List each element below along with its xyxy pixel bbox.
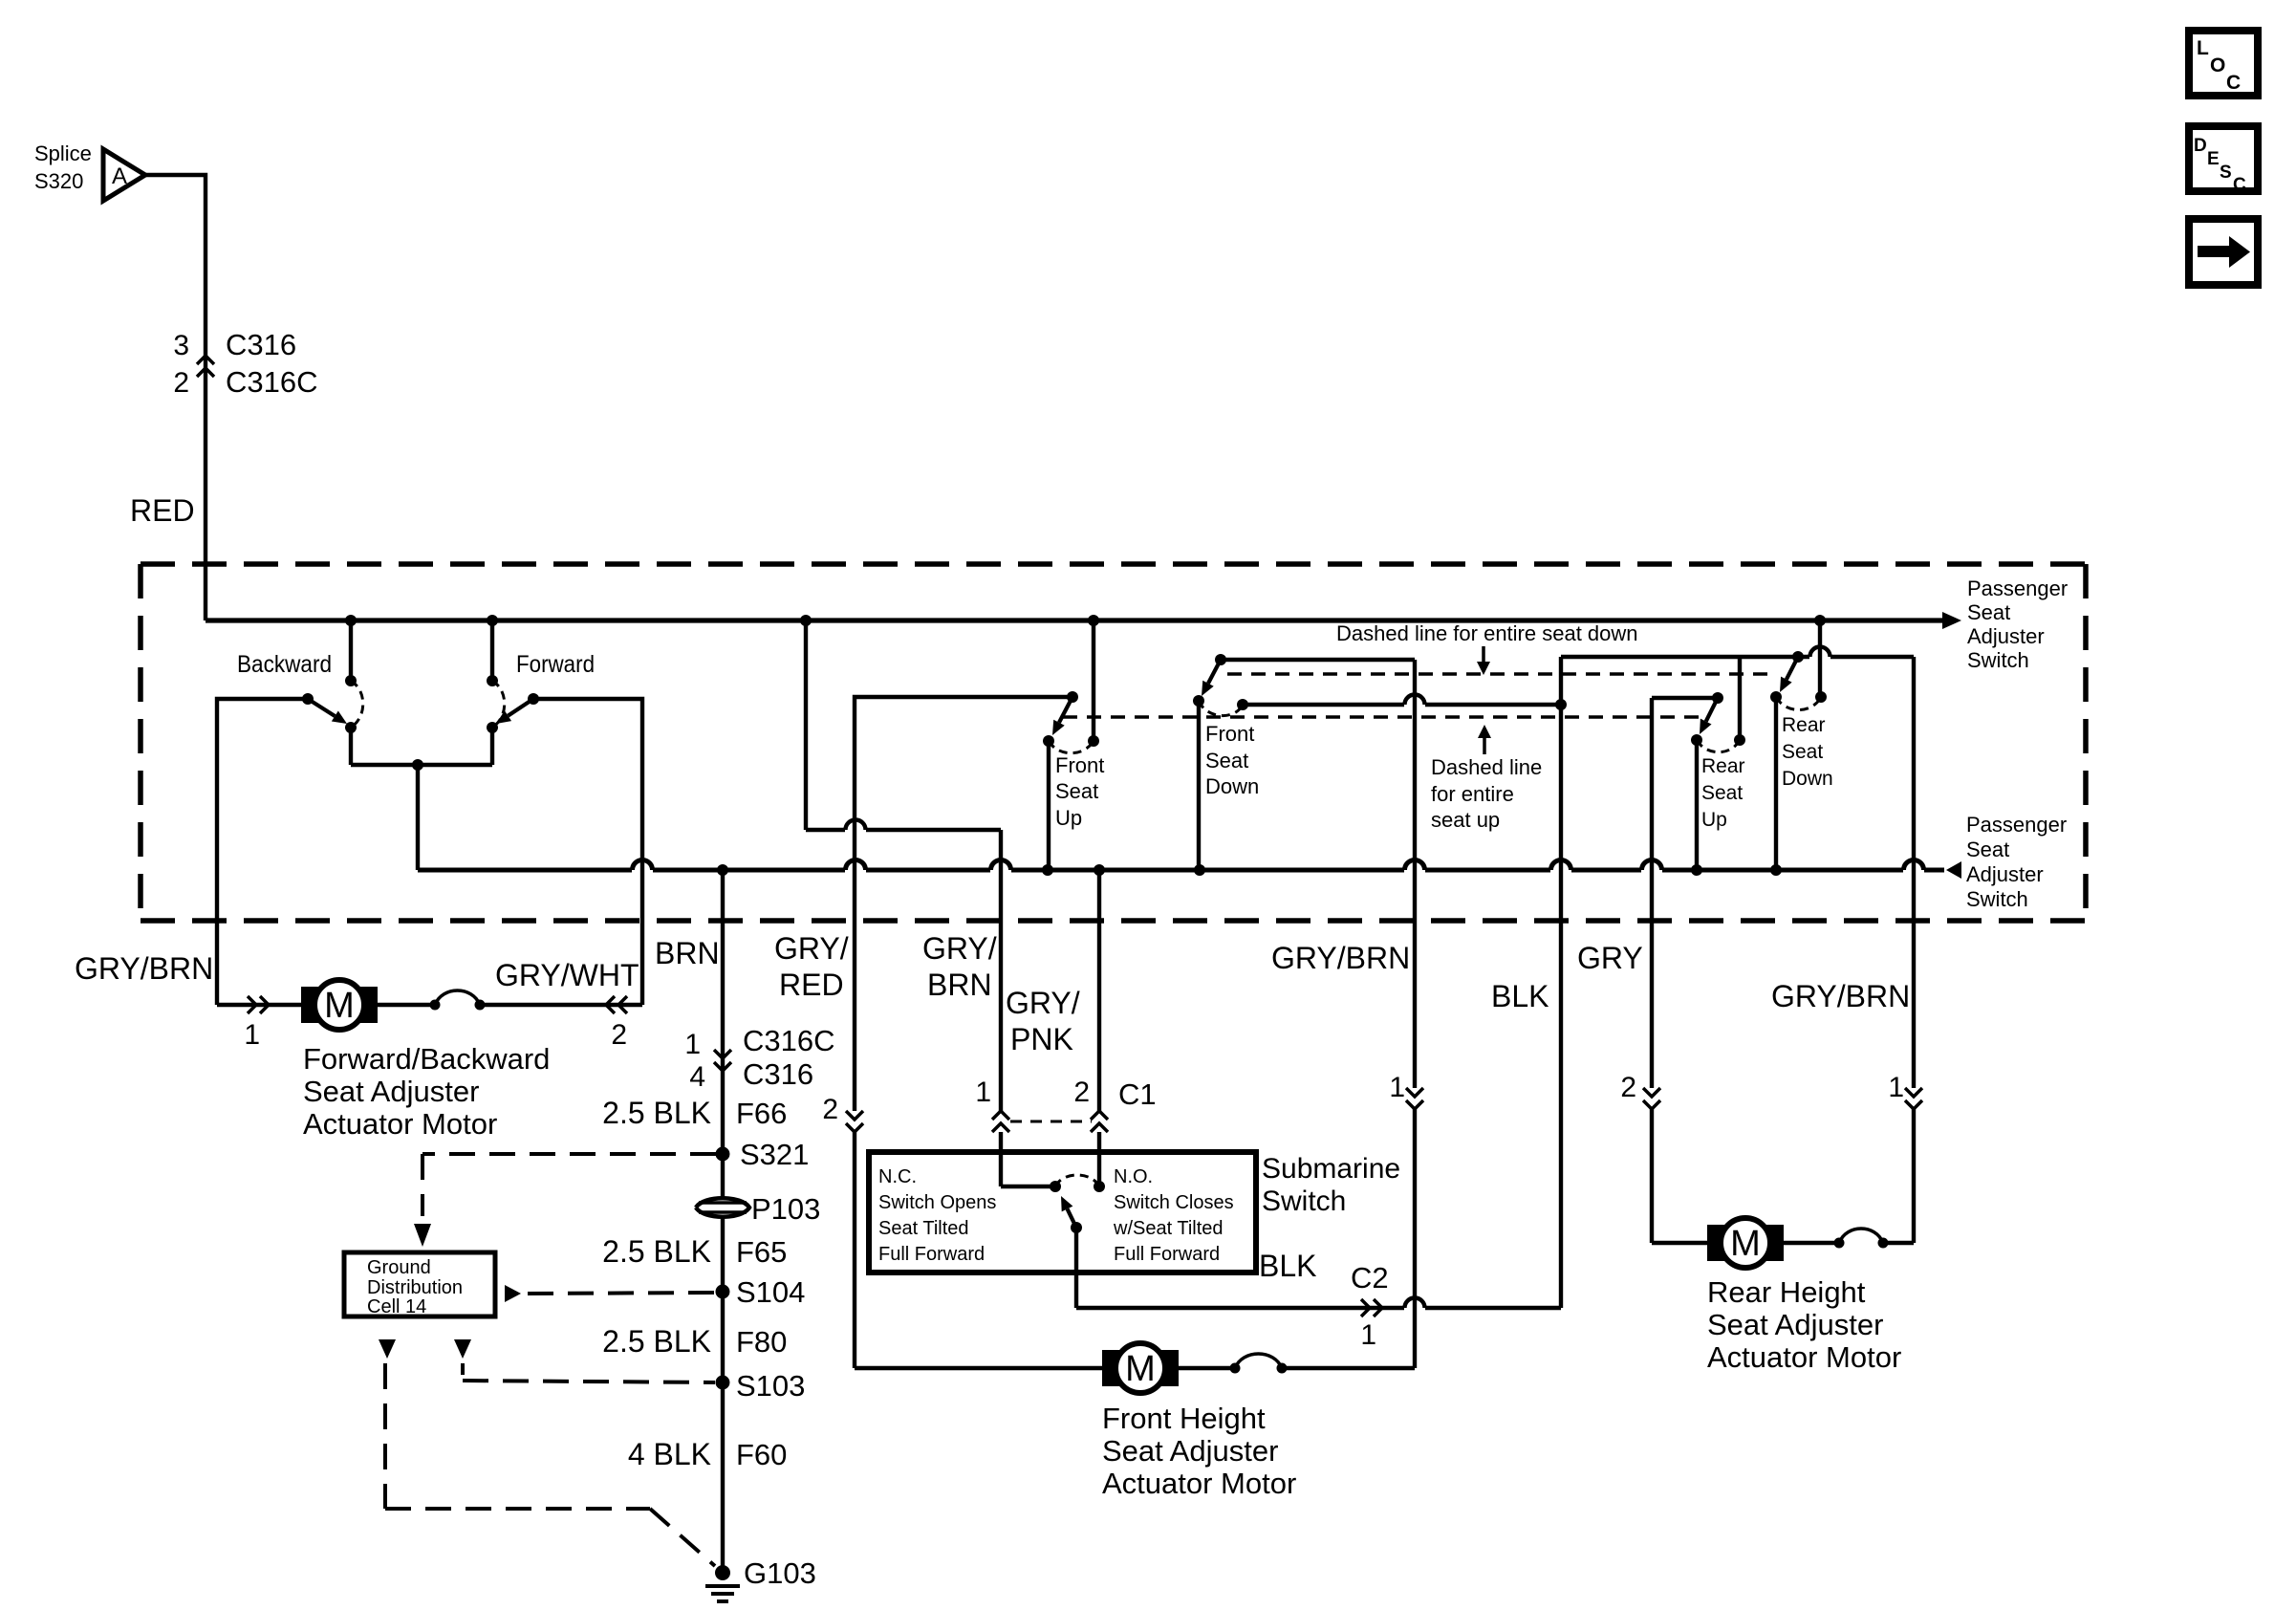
svg-text:Adjuster: Adjuster — [1967, 624, 2045, 648]
svg-text:Seat: Seat — [1205, 749, 1248, 772]
svg-text:C316: C316 — [743, 1057, 813, 1091]
svg-text:1: 1 — [684, 1029, 701, 1060]
svg-text:Up: Up — [1055, 806, 1082, 830]
svg-text:GRY/BRN: GRY/BRN — [1271, 941, 1410, 975]
svg-text:1: 1 — [244, 1019, 260, 1051]
svg-text:P103: P103 — [751, 1192, 820, 1226]
svg-text:1: 1 — [1888, 1072, 1904, 1103]
svg-text:1: 1 — [1360, 1319, 1376, 1351]
svg-text:Seat Adjuster: Seat Adjuster — [1102, 1434, 1278, 1468]
svg-text:for entire: for entire — [1431, 782, 1514, 806]
svg-text:GRY: GRY — [1577, 941, 1643, 975]
svg-text:Switch Closes: Switch Closes — [1114, 1192, 1234, 1213]
svg-text:Seat: Seat — [1966, 838, 2009, 861]
svg-text:Passenger: Passenger — [1966, 813, 2067, 837]
svg-text:Rear: Rear — [1782, 714, 1826, 736]
svg-text:S321: S321 — [740, 1138, 809, 1171]
svg-text:Front Height: Front Height — [1102, 1402, 1266, 1435]
svg-text:GRY/: GRY/ — [1006, 986, 1080, 1020]
svg-text:Full Forward: Full Forward — [1114, 1244, 1220, 1265]
svg-text:2.5 BLK: 2.5 BLK — [602, 1234, 711, 1269]
svg-text:Forward/Backward: Forward/Backward — [303, 1042, 550, 1076]
svg-text:Actuator Motor: Actuator Motor — [1102, 1467, 1296, 1500]
svg-text:S104: S104 — [736, 1275, 805, 1309]
svg-text:1: 1 — [975, 1077, 991, 1108]
svg-text:F80: F80 — [736, 1325, 787, 1359]
svg-text:Switch: Switch — [1966, 887, 2028, 911]
svg-text:Full Forward: Full Forward — [878, 1244, 985, 1265]
svg-text:S103: S103 — [736, 1369, 805, 1403]
svg-text:M: M — [1730, 1224, 1761, 1264]
svg-text:BRN: BRN — [655, 936, 720, 970]
svg-text:Seat Tilted: Seat Tilted — [878, 1218, 969, 1239]
svg-text:Backward: Backward — [237, 651, 332, 678]
svg-text:GRY/WHT: GRY/WHT — [495, 958, 639, 992]
svg-text:GRY/BRN: GRY/BRN — [75, 951, 213, 986]
svg-text:Dashed line: Dashed line — [1431, 755, 1542, 779]
svg-text:Distribution: Distribution — [367, 1277, 463, 1298]
svg-text:2: 2 — [1620, 1072, 1636, 1103]
svg-text:PNK: PNK — [1010, 1022, 1073, 1056]
svg-text:Splice: Splice — [34, 141, 92, 165]
svg-text:Seat: Seat — [1055, 779, 1098, 803]
svg-text:BLK: BLK — [1491, 979, 1549, 1013]
svg-text:C: C — [2233, 175, 2246, 195]
svg-text:Adjuster: Adjuster — [1966, 862, 2044, 886]
svg-text:Front: Front — [1205, 722, 1254, 746]
svg-text:Passenger: Passenger — [1967, 577, 2068, 600]
svg-text:D: D — [2194, 136, 2207, 156]
svg-text:3: 3 — [173, 330, 189, 361]
svg-text:E: E — [2207, 149, 2220, 169]
svg-text:Ground: Ground — [367, 1257, 431, 1278]
svg-text:Seat Adjuster: Seat Adjuster — [303, 1075, 479, 1108]
svg-text:Seat: Seat — [1967, 600, 2010, 624]
svg-text:2: 2 — [611, 1019, 627, 1051]
svg-text:O: O — [2210, 54, 2225, 76]
svg-text:N.O.: N.O. — [1114, 1166, 1153, 1187]
svg-text:C316: C316 — [226, 328, 296, 361]
svg-text:2: 2 — [822, 1094, 838, 1125]
svg-text:2: 2 — [1073, 1077, 1090, 1108]
svg-text:RED: RED — [779, 968, 844, 1002]
svg-text:S: S — [2220, 163, 2232, 183]
svg-text:BLK: BLK — [1259, 1249, 1316, 1283]
svg-text:GRY/BRN: GRY/BRN — [1771, 979, 1910, 1013]
svg-text:N.C.: N.C. — [878, 1166, 917, 1187]
svg-text:M: M — [1125, 1349, 1156, 1389]
svg-text:seat up: seat up — [1431, 808, 1500, 832]
svg-text:C2: C2 — [1351, 1261, 1389, 1295]
svg-text:2: 2 — [173, 367, 189, 399]
svg-text:2.5 BLK: 2.5 BLK — [602, 1324, 711, 1359]
svg-text:Down: Down — [1782, 768, 1833, 790]
svg-text:w/Seat Tilted: w/Seat Tilted — [1113, 1218, 1224, 1239]
svg-text:Seat Adjuster: Seat Adjuster — [1707, 1308, 1883, 1341]
svg-text:F65: F65 — [736, 1235, 787, 1269]
svg-text:G103: G103 — [744, 1556, 816, 1590]
svg-text:Rear: Rear — [1701, 755, 1745, 777]
svg-text:Cell 14: Cell 14 — [367, 1296, 426, 1317]
svg-text:Seat: Seat — [1782, 741, 1823, 763]
svg-text:Actuator Motor: Actuator Motor — [303, 1107, 497, 1141]
svg-text:4 BLK: 4 BLK — [628, 1437, 711, 1471]
svg-text:Front: Front — [1055, 753, 1104, 777]
svg-text:BRN: BRN — [927, 968, 992, 1002]
svg-text:GRY/: GRY/ — [922, 931, 997, 966]
svg-text:C1: C1 — [1118, 1077, 1157, 1111]
svg-text:RED: RED — [130, 493, 195, 528]
svg-text:L: L — [2197, 37, 2209, 59]
svg-text:F66: F66 — [736, 1097, 787, 1130]
svg-text:C316C: C316C — [226, 365, 318, 399]
svg-text:Dashed line for entire seat do: Dashed line for entire seat down — [1336, 621, 1638, 645]
svg-text:2.5 BLK: 2.5 BLK — [602, 1096, 711, 1130]
svg-text:Rear Height: Rear Height — [1707, 1275, 1866, 1309]
svg-text:S320: S320 — [34, 169, 83, 193]
svg-text:M: M — [324, 986, 355, 1026]
svg-text:Up: Up — [1701, 809, 1727, 831]
svg-text:Switch: Switch — [1967, 648, 2029, 672]
svg-text:Switch Opens: Switch Opens — [878, 1192, 996, 1213]
svg-text:GRY/: GRY/ — [774, 931, 849, 966]
svg-text:A: A — [112, 163, 127, 189]
svg-text:Actuator Motor: Actuator Motor — [1707, 1340, 1901, 1374]
svg-text:C316C: C316C — [743, 1024, 835, 1057]
svg-text:F60: F60 — [736, 1438, 787, 1471]
svg-text:C: C — [2226, 72, 2241, 94]
svg-text:Submarine: Submarine — [1262, 1153, 1400, 1185]
svg-text:Switch: Switch — [1262, 1186, 1346, 1217]
svg-text:Down: Down — [1205, 774, 1259, 798]
svg-text:1: 1 — [1389, 1072, 1405, 1103]
svg-text:4: 4 — [689, 1061, 705, 1093]
svg-text:Seat: Seat — [1701, 782, 1743, 804]
svg-text:Forward: Forward — [516, 651, 595, 678]
